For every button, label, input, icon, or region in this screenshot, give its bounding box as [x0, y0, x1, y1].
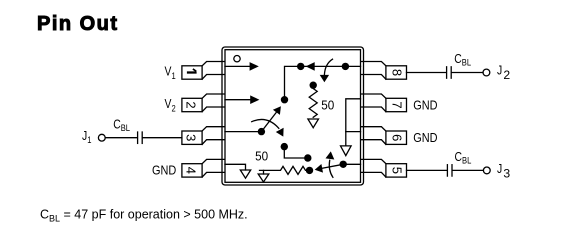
wire pin 2 V2 control — [225, 99, 251, 101]
svg-text:GND: GND — [152, 162, 177, 177]
switch S1 throw arc — [252, 119, 284, 136]
node dot R1 top — [310, 82, 317, 89]
svg-text:6: 6 — [389, 134, 404, 141]
connector J1 — [98, 134, 105, 141]
wire pin 5 to CBL — [407, 169, 447, 171]
svg-text:CBL: CBL — [454, 52, 471, 68]
pin 4 — [182, 159, 225, 177]
switch S1 pivot dot — [258, 128, 265, 135]
svg-text:50: 50 — [321, 98, 334, 113]
svg-text:3: 3 — [503, 166, 510, 180]
label V1 — [165, 65, 176, 81]
connector J3 — [483, 167, 490, 174]
switch S2 arm arrowhead — [306, 62, 315, 71]
label CBL (input) — [113, 117, 130, 133]
pin 5 — [361, 159, 407, 177]
resistor R1 50 (pin 8 termination) — [309, 85, 317, 117]
wire node A to pin 8 — [285, 66, 361, 99]
ground (pins 6,7) — [341, 146, 352, 156]
IC body U1 — [222, 47, 364, 185]
wire CBL to J2 — [452, 72, 483, 74]
svg-text:V1: V1 — [165, 65, 176, 81]
label R1 value 50 — [321, 98, 334, 113]
switch S2 pivot dot (pin 8) — [342, 63, 349, 70]
label V2 — [165, 97, 176, 113]
pin 8 — [361, 62, 407, 80]
svg-text:GND: GND — [413, 97, 438, 112]
ground (pin 4) — [240, 170, 250, 178]
wire J1 to CBL — [105, 137, 137, 139]
svg-text:2: 2 — [183, 101, 198, 108]
svg-text:7: 7 — [389, 101, 404, 108]
node dot R2 right end — [306, 167, 313, 174]
label GND (pin 4) — [152, 162, 177, 177]
switch S1 arm — [261, 106, 281, 131]
ground (R1) — [308, 119, 319, 128]
label GND (pin 7) — [413, 97, 438, 112]
wire pin 8 to CBL — [407, 72, 447, 74]
svg-text:5: 5 — [389, 167, 404, 174]
arrow V1 control — [250, 62, 259, 71]
label J3 — [497, 162, 502, 176]
svg-text:50: 50 — [255, 149, 268, 164]
switch S3 pivot dot (pin 5) — [340, 161, 347, 168]
capacitor CBL (J3) — [447, 165, 452, 176]
wire node B to S3 contact — [284, 147, 308, 158]
pin 1 indicator circle — [234, 56, 240, 62]
switch S3 throw arc — [326, 151, 335, 177]
switch S2 contact dot (signal) — [297, 63, 304, 70]
wire pin 4 to ground — [225, 164, 246, 170]
note CBL value — [40, 208, 248, 224]
label GND (pin 6) — [413, 130, 438, 145]
pin 2 — [182, 94, 225, 112]
arrow V2 control — [250, 95, 259, 104]
svg-text:CBL: CBL — [113, 117, 130, 133]
wire pin 5 — [343, 163, 360, 165]
wire CBL to J3 — [453, 169, 484, 171]
capacitor CBL (input) — [138, 132, 143, 143]
switch S3 upper contact dot — [304, 154, 311, 161]
svg-text:8: 8 — [389, 69, 404, 76]
connector J2 — [483, 69, 490, 76]
title "Pin Out" — [37, 13, 117, 35]
svg-text:CBL: CBL — [455, 150, 472, 166]
switch S2 throw arc — [324, 59, 332, 75]
ground (R2) — [258, 170, 269, 182]
svg-text:J: J — [497, 64, 502, 78]
label R2 value 50 — [255, 149, 268, 164]
svg-text:CBL = 47 pF for operation > 50: CBL = 47 pF for operation > 500 MHz. — [40, 208, 248, 224]
pin 3 — [182, 127, 225, 145]
label J1 — [82, 129, 92, 145]
label J2 — [497, 64, 502, 78]
svg-text:V2: V2 — [165, 97, 176, 113]
wire pin 1 V1 control — [225, 65, 250, 67]
svg-text:2: 2 — [503, 68, 510, 82]
capacitor CBL (J2) — [447, 67, 452, 78]
wire CBL to pin 3 — [143, 137, 182, 139]
node B junction dot — [281, 143, 288, 150]
wire pin 6 GND — [346, 131, 361, 133]
svg-text:Pin Out: Pin Out — [37, 13, 117, 35]
svg-text:J1: J1 — [82, 129, 92, 145]
svg-text:J: J — [497, 162, 502, 176]
svg-text:4: 4 — [183, 167, 198, 174]
pin 1 — [182, 62, 225, 80]
wire pin 7 GND — [346, 99, 361, 146]
node A junction dot — [281, 96, 288, 103]
pin 6 — [361, 127, 407, 145]
switch S3 arm — [315, 164, 344, 173]
wire pin 3 input — [225, 131, 261, 133]
label CBL (J2) — [454, 52, 471, 68]
svg-text:3: 3 — [183, 134, 198, 141]
svg-text:GND: GND — [413, 130, 438, 145]
switch S2 arc arrowhead — [320, 75, 329, 82]
resistor R2 50 (pin 5 termination) — [260, 166, 310, 174]
pin 7 — [361, 94, 407, 112]
label CBL (J3) — [455, 150, 472, 166]
